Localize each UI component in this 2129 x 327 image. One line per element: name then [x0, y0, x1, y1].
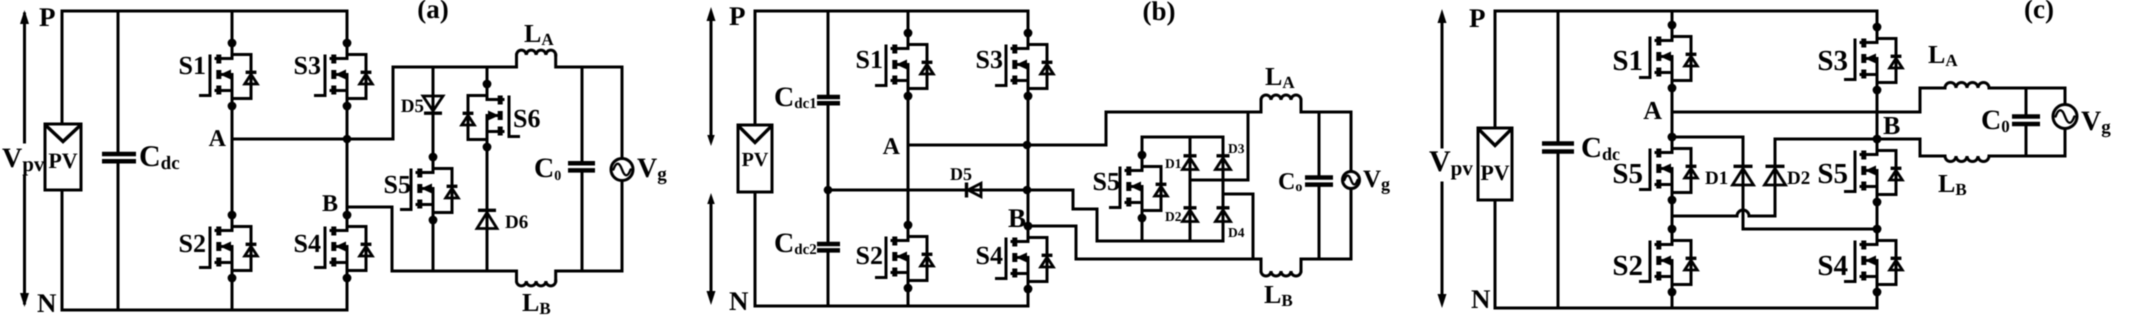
PV panel (b): [738, 125, 772, 192]
wire S6-D6 branch (a): [486, 67, 489, 271]
svg-text:(c): (c): [2024, 0, 2054, 24]
diode D5 (b): [965, 183, 968, 198]
capacitor Co (a): [568, 163, 595, 170]
transistor S3 (b): [997, 29, 1054, 101]
svg-text:S5: S5: [1093, 167, 1120, 196]
wire dc midpoint to D5 (b): [828, 189, 966, 192]
transistor S3 (c): [1846, 23, 1903, 95]
svg-text:S5: S5: [1612, 158, 1643, 190]
junction node A / S3-S4 leg (a): [343, 135, 352, 144]
svg-text:P: P: [729, 1, 746, 31]
upper dc-link measurement arrow (b): [707, 7, 716, 146]
wire node A to output (b): [908, 112, 1106, 145]
inductor LA (b): [1261, 95, 1301, 100]
svg-text:N: N: [729, 286, 749, 316]
junction A-wire / S3-S4 leg (b): [1023, 141, 1032, 150]
diode D4 (b): [1216, 210, 1231, 222]
PV panel (c): [1478, 128, 1512, 200]
wire N bottom rail (c): [1495, 307, 1877, 310]
wire S3-S4 leg (a): [346, 11, 349, 310]
wire left rail lower (a): [61, 190, 64, 310]
diode D1 (c): [1733, 169, 1754, 186]
wire LA to filter (c): [1989, 87, 2065, 90]
transistor S1 (b): [877, 29, 934, 101]
wire LB to filter (c): [1989, 155, 2065, 158]
PV panel (a): [45, 124, 81, 190]
svg-text:S5: S5: [384, 170, 411, 199]
svg-text:PV: PV: [1480, 160, 1509, 185]
wire left rail upper (b): [754, 11, 757, 125]
inductor LA (c): [1945, 83, 1989, 89]
inductor LB (c): [1945, 156, 1989, 162]
wire diode bridge left leg (b): [1189, 137, 1192, 241]
svg-text:PV: PV: [742, 149, 769, 171]
wire left rail lower (b): [754, 192, 757, 306]
svg-text:S3: S3: [1817, 45, 1848, 77]
capacitor Co (b): [1305, 178, 1333, 185]
wire bypass top rail (b): [1142, 136, 1223, 139]
wire node B to LB (c): [1877, 139, 1945, 156]
svg-text:A: A: [883, 134, 901, 160]
svg-text:B: B: [1883, 111, 1900, 140]
diode D6 (a): [477, 213, 497, 229]
wire node A across to output (c): [1672, 88, 1945, 112]
capacitor Cdc2 (b): [817, 244, 840, 250]
svg-text:D5: D5: [950, 164, 972, 184]
svg-text:S4: S4: [976, 241, 1003, 270]
lower dc-link measurement arrow (b): [707, 193, 716, 305]
svg-text:D1: D1: [1705, 168, 1728, 189]
capacitor Cdc1 (b): [817, 97, 840, 103]
wire left rail upper (c): [1494, 11, 1497, 128]
wire node B to output (b): [1028, 226, 1261, 259]
capacitor Cdc (a): [102, 154, 136, 161]
svg-text:S5: S5: [1817, 158, 1848, 190]
svg-text:D3: D3: [1228, 141, 1245, 156]
wire N bottom rail (a): [62, 309, 347, 312]
wire node B to auxiliary bottom rail (a): [347, 207, 392, 271]
wire auxiliary top rail with LA (a): [393, 55, 517, 67]
wire grid branch (b): [1350, 112, 1353, 259]
svg-text:S2: S2: [1612, 250, 1643, 282]
junction D1 cathode wire / left leg (c): [1668, 133, 1677, 142]
transistor S4: [316, 211, 373, 283]
wire D1 branch (c): [1672, 137, 1877, 229]
wire Co branch (b): [1318, 112, 1321, 259]
wire left rail lower (c): [1494, 200, 1497, 308]
transistor S1: [201, 39, 258, 111]
svg-text:D2: D2: [1165, 209, 1182, 224]
svg-text:D2: D2: [1787, 168, 1810, 189]
svg-text:(b): (b): [1142, 0, 1175, 26]
wire S1-S2 leg (b): [907, 11, 910, 306]
svg-text:S1: S1: [1612, 45, 1643, 77]
wire grid branch (c): [2064, 88, 2067, 156]
wire S3-S5-S4 leg (c): [1876, 11, 1879, 308]
inductor LB (a): [517, 281, 556, 286]
svg-text:(a): (a): [417, 0, 449, 24]
svg-text:S4: S4: [1817, 250, 1848, 282]
transistor S6 (a): [462, 80, 519, 152]
transistor S5 left (c): [1641, 133, 1698, 205]
wire node A to auxiliary top rail (a): [232, 67, 393, 139]
wire P top rail (a): [62, 10, 347, 13]
svg-text:B: B: [322, 191, 338, 217]
wire diode bridge right leg (b): [1222, 137, 1225, 241]
svg-text:N: N: [1471, 284, 1491, 314]
wire auxiliary bottom rail with LB (a): [392, 271, 517, 281]
wire Co branch (c): [2025, 88, 2028, 156]
wire grid branch (a): [621, 67, 624, 271]
wire P top rail (b): [755, 10, 1028, 13]
svg-text:A: A: [209, 126, 227, 152]
diode D1 (b): [1183, 158, 1198, 170]
svg-text:S2: S2: [856, 241, 883, 270]
svg-text:P: P: [1469, 3, 1486, 33]
junction midpoint-wire / S3-S4 leg (b): [1023, 186, 1032, 195]
wire bridge left midpoint to A-line (b): [1190, 112, 1248, 180]
capacitor Cdc (c): [1542, 144, 1574, 152]
svg-text:S1: S1: [179, 51, 206, 80]
diode D5 (a): [423, 96, 443, 111]
junction dc-link midpoint (b): [824, 186, 833, 195]
wire S1-S5-S2 leg (c): [1671, 11, 1674, 308]
transistor S1 (c): [1641, 21, 1698, 93]
svg-text:S3: S3: [976, 45, 1003, 74]
transistor S3: [316, 39, 373, 111]
svg-text:S1: S1: [856, 45, 883, 74]
diode D3 (b): [1216, 158, 1231, 170]
svg-text:N: N: [37, 288, 57, 318]
AC source Vg (b): [1343, 172, 1360, 189]
transistor S4 (c): [1846, 225, 1903, 297]
transistor S2 (c): [1641, 225, 1698, 297]
wire Cdc branch (a): [117, 11, 120, 310]
wire left rail upper (a): [61, 11, 64, 124]
transistor S4 (b): [997, 222, 1054, 294]
transistor S2: [201, 211, 258, 283]
capacitor Co (c): [2012, 117, 2040, 125]
wire bypass bottom rail (b): [1142, 240, 1223, 243]
AC source Vg (a): [611, 159, 633, 181]
transistor S5 right (c): [1846, 135, 1903, 207]
transistor S5 (b): [1111, 151, 1168, 223]
svg-text:S3: S3: [294, 51, 321, 80]
wire Cdc branch (c): [1557, 11, 1560, 308]
wire S3-S4 leg (b): [1027, 11, 1030, 306]
svg-text:D4: D4: [1228, 225, 1245, 240]
wire P top rail (c): [1495, 10, 1877, 13]
wire D5-S5 branch (a): [432, 67, 435, 271]
diode D2 (b): [1183, 210, 1198, 222]
svg-text:D5: D5: [401, 96, 424, 117]
Vpv measurement arrow (c): [1438, 9, 1447, 308]
svg-text:P: P: [39, 2, 56, 32]
wire bridge right midpoint to B-line (b): [1223, 194, 1253, 259]
svg-text:D6: D6: [505, 212, 528, 233]
wire S1-S2 leg (a): [231, 11, 234, 310]
wire Co branch (a): [581, 67, 584, 271]
Vpv measurement arrow (a): [20, 10, 29, 307]
inductor LB (b): [1260, 259, 1263, 271]
svg-text:PV: PV: [48, 148, 77, 173]
svg-text:B: B: [1008, 203, 1026, 233]
inductor LA (a): [517, 50, 556, 55]
junction D1 anode wire / right leg (c): [1873, 225, 1882, 234]
svg-text:S2: S2: [179, 229, 206, 258]
svg-text:A: A: [1643, 96, 1662, 125]
wire S5 leads (b): [1141, 137, 1144, 241]
svg-text:S6: S6: [513, 104, 540, 133]
wire D2 branch with crossover hop (c): [1672, 215, 1737, 218]
diode D2 (c): [1765, 169, 1786, 186]
wire A-line with LA (b): [1106, 100, 1261, 112]
transistor S2 (b): [877, 221, 934, 293]
svg-text:D1: D1: [1165, 156, 1182, 171]
svg-text:S4: S4: [294, 229, 321, 258]
wire N bottom rail (b): [755, 305, 1028, 308]
wire split capacitor branch (b): [827, 11, 830, 306]
wire midpoint to bypass bottom rail (b): [1027, 190, 1143, 241]
AC source Vg (c): [2053, 105, 2077, 129]
junction node B (c): [1873, 135, 1882, 144]
transistor S5 (a): [402, 153, 459, 225]
